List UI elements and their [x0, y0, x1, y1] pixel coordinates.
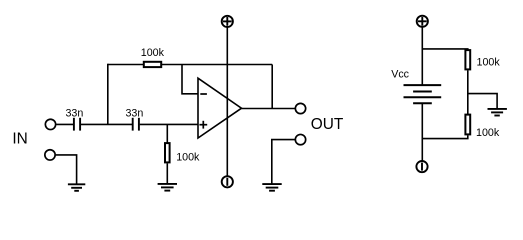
svg-text:100k: 100k — [141, 47, 165, 59]
wire IN terminal to C1 — [56, 123, 73, 125]
power rail wire through op-amp — [226, 27, 228, 176]
ground near OUT — [262, 184, 281, 191]
terminal OUT ground — [295, 134, 305, 144]
resistor divider top 100k body — [465, 50, 470, 69]
wire midpoint to ground — [468, 94, 497, 109]
op-amp inverting input mark — [200, 93, 207, 95]
svg-text:OUT: OUT — [311, 116, 344, 133]
terminal IN signal — [45, 119, 55, 129]
wire feedback down to inverting input — [182, 65, 198, 94]
svg-text:100k: 100k — [176, 152, 200, 164]
battery Vcc — [404, 85, 442, 103]
svg-text:IN: IN — [12, 130, 27, 147]
terminal V- below op-amp — [222, 176, 233, 187]
wire bottom branch — [422, 135, 468, 138]
wire C1 to C2 through node A — [81, 123, 132, 125]
ground near IN — [68, 184, 85, 191]
terminal OUT — [295, 103, 305, 113]
capacitor C1 33n — [74, 118, 80, 131]
wire C2 to op-amp noninverting input — [140, 123, 198, 125]
op-amp noninverting input mark — [199, 121, 207, 129]
op-amp U1 triangle — [198, 78, 242, 138]
resistor R1 body (feedback 100k) — [144, 62, 161, 67]
wire top branch to divider — [422, 49, 468, 50]
svg-text:Vcc: Vcc — [391, 69, 409, 81]
svg-text:33n: 33n — [65, 108, 83, 120]
wire battery plus terminal down to battery — [421, 27, 423, 85]
node A vertical wire up to feedback — [107, 64, 109, 125]
wire divider middle segment — [467, 70, 469, 114]
feedback top wire — [108, 64, 272, 66]
terminal battery plus — [417, 16, 428, 27]
wire battery down to minus terminal — [421, 103, 423, 161]
wire IN ground terminal to ground — [56, 155, 77, 184]
svg-text:100k: 100k — [477, 56, 501, 68]
terminal IN ground — [45, 150, 55, 160]
ground at divider midpoint — [488, 109, 507, 116]
terminal battery minus — [416, 161, 427, 172]
wire OUT ground terminal to ground — [272, 140, 296, 185]
node B vertical wire down to R2 — [166, 124, 168, 143]
wire op-amp output to OUT terminal — [242, 108, 296, 110]
terminal V+ above op-amp — [222, 16, 233, 27]
wire feedback down to output node — [271, 65, 273, 109]
capacitor C2 33n — [133, 118, 139, 131]
resistor R2 body — [165, 143, 170, 162]
resistor divider bottom 100k body — [465, 115, 470, 135]
ground below R2 — [158, 184, 177, 191]
svg-text:33n: 33n — [125, 108, 143, 120]
svg-text:100k: 100k — [476, 127, 500, 139]
wire R2 to ground — [166, 163, 168, 184]
